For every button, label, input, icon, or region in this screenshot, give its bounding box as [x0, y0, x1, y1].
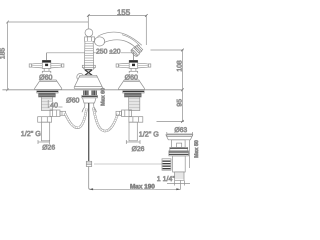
left valve side outlet [50, 110, 66, 117]
spout column ribbed neck [84, 41, 93, 69]
drain neck [172, 140, 186, 148]
pop-up rod lower [89, 167, 90, 190]
svg-text:Ø60: Ø60 [125, 73, 138, 81]
deck line [2, 89, 183, 91]
dimension 108/95 vertical line [151, 49, 185, 123]
dimension label 40 [50, 102, 59, 108]
right valve hex nut [129, 117, 143, 123]
svg-text:Max 190: Max 190 [130, 183, 155, 190]
right handle cross [116, 60, 151, 75]
svg-text:40: 40 [50, 101, 58, 110]
spout column ball finial [85, 29, 93, 37]
svg-text:Max 50: Max 50 [194, 140, 200, 158]
right valve threaded shank [129, 97, 140, 111]
spout column dark waist [85, 70, 93, 75]
drain pop-up cap [166, 135, 193, 140]
svg-text:Ø26: Ø26 [132, 146, 145, 153]
spout attachment bulge [95, 37, 105, 46]
diverter ball left of column [77, 74, 84, 81]
drain lever clamp [162, 159, 171, 170]
spout tube inner highlight [122, 35, 140, 46]
hose left to center [65, 109, 87, 128]
spout outlet rings [130, 44, 143, 57]
dimension label 250 pm 20 [96, 47, 121, 56]
drain body [173, 156, 186, 172]
left handle leader [46, 53, 48, 61]
svg-text:250 ±20: 250 ±20 [96, 49, 121, 56]
dimension 155 line [87, 14, 148, 45]
dimension label Ø60 left [39, 73, 53, 79]
left valve threaded shank [41, 97, 52, 111]
left valve tube [41, 122, 49, 141]
dimension Ø63 bracket [167, 133, 193, 135]
right valve flange below deck [123, 91, 144, 97]
drain locknut [169, 151, 189, 156]
svg-text:108: 108 [177, 60, 184, 72]
dimension label Max 190 [130, 182, 156, 189]
spout column cup [82, 65, 95, 69]
center shank below deck [82, 91, 98, 113]
drain tailpipe [175, 172, 184, 180]
dimension 40 [48, 100, 62, 108]
dimension label Ø60 right [124, 73, 138, 79]
right valve side outlet [116, 110, 132, 117]
pop-up rod upper [88, 103, 90, 161]
left valve flange below deck [37, 91, 58, 97]
hose center to right [93, 108, 118, 132]
svg-text:Ø63: Ø63 [174, 127, 187, 134]
linkage bar to drain [94, 163, 164, 165]
dimension Ø26 left bracket [38, 141, 50, 143]
svg-text:Ø60: Ø60 [66, 97, 79, 105]
right escutcheon bell [119, 80, 145, 90]
svg-text:1 1/4": 1 1/4" [157, 175, 176, 183]
right handle leader [132, 53, 134, 61]
pop-up rod coupler [86, 161, 91, 166]
svg-text:155: 155 [117, 8, 131, 17]
dimension Max 50 line [189, 140, 191, 168]
left handle cross [29, 60, 64, 75]
svg-text:95: 95 [177, 99, 184, 107]
svg-text:Ø60: Ø60 [39, 73, 52, 81]
svg-text:185: 185 [0, 48, 6, 60]
handle axis line 250 [47, 53, 134, 61]
dimension 185 vertical line [6, 21, 88, 92]
svg-text:1/2" G: 1/2" G [21, 129, 42, 138]
left valve hex nut [38, 117, 52, 123]
drain basin flange [170, 147, 188, 150]
svg-text:Ø26: Ø26 [42, 144, 55, 151]
left escutcheon bell [35, 80, 62, 90]
spout column collar [85, 37, 95, 42]
center escutcheon bell [74, 75, 102, 89]
dimension 1 1/4 [167, 181, 190, 186]
right valve tube [129, 122, 137, 141]
svg-text:Max 60: Max 60 [101, 88, 107, 106]
dimension Max 190 [89, 181, 181, 191]
svg-text:1/2" G: 1/2" G [139, 129, 160, 138]
spout tube [98, 32, 142, 50]
dimension Ø26 right bracket [126, 141, 140, 143]
